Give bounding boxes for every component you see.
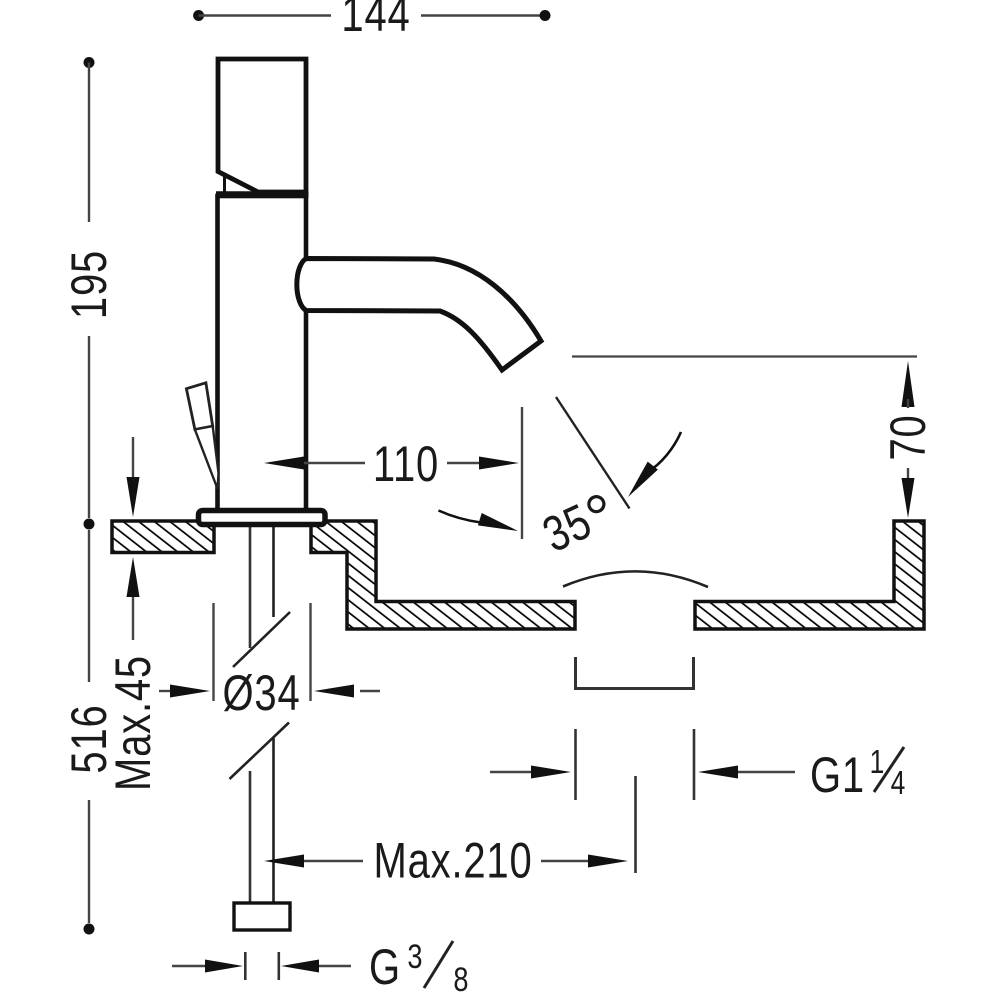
dim 144 line	[193, 10, 204, 21]
spout	[297, 259, 541, 371]
svg-text:195: 195	[61, 250, 117, 319]
G1 1/4 left arrow	[490, 771, 533, 773]
G 3/8 left arrow	[172, 965, 207, 967]
drain bracket	[576, 657, 694, 689]
G1 1/4 right arrow	[698, 766, 738, 779]
svg-text:8: 8	[453, 960, 468, 999]
dim O34 left arrow	[159, 690, 174, 692]
base plate	[199, 511, 326, 525]
dim 110 left arrow	[264, 457, 304, 470]
supply pipe right line	[272, 526, 275, 903]
handle cap	[218, 59, 306, 192]
lever rod	[195, 426, 219, 489]
arc arrow left	[439, 511, 482, 523]
faucet body	[218, 196, 307, 511]
arc arrow right	[647, 432, 681, 473]
svg-text:Ø34: Ø34	[223, 665, 301, 721]
dim 110 right arrow	[447, 462, 479, 464]
dim 70 lower arrow	[907, 468, 909, 479]
dim 35 text	[534, 484, 618, 563]
dim Max.45 lower arrow	[127, 557, 140, 597]
dim 195 line	[84, 57, 95, 68]
svg-text:G: G	[369, 939, 401, 995]
svg-text:4: 4	[891, 765, 906, 801]
supply nut	[234, 903, 290, 930]
outlet reference line	[572, 355, 917, 357]
svg-text:Max.210: Max.210	[374, 832, 533, 888]
svg-text:3: 3	[407, 937, 422, 976]
dim O34 right arrow	[360, 690, 380, 692]
drain axis line	[634, 776, 637, 873]
basin floor right + right wall (hatched)	[695, 521, 924, 629]
dim Max.210 left arrow	[264, 855, 304, 868]
svg-text:G1: G1	[810, 747, 865, 803]
G 3/8 ticks	[244, 952, 247, 980]
handle base line	[216, 191, 309, 198]
dim Max.210 right arrow	[541, 860, 588, 862]
svg-text:144: 144	[341, 0, 410, 42]
pipe break diagonal upper	[233, 612, 290, 667]
dim 516 line	[88, 530, 90, 682]
35 degree line	[556, 397, 630, 509]
dim Max.45 upper arrow	[132, 437, 134, 481]
G1 1/4 extension lines	[574, 729, 577, 800]
pipe break diagonal lower	[230, 723, 290, 780]
handle pin	[223, 176, 226, 194]
svg-text:70: 70	[880, 414, 936, 460]
svg-text:110: 110	[373, 436, 439, 492]
G 3/8 right arrow	[281, 960, 319, 973]
supply pipe left line	[249, 526, 252, 903]
countertop right slab with basin step (hatched)	[311, 521, 575, 629]
countertop left slab (hatched)	[112, 521, 214, 553]
basin curve arc	[563, 571, 708, 587]
dim O34 extension lines	[212, 603, 214, 701]
svg-text:1: 1	[870, 744, 885, 780]
spout axis extension line	[521, 407, 523, 539]
dim 70 upper arrow	[902, 361, 915, 407]
lever knob	[186, 383, 212, 430]
svg-text:Max.45: Max.45	[105, 655, 161, 791]
